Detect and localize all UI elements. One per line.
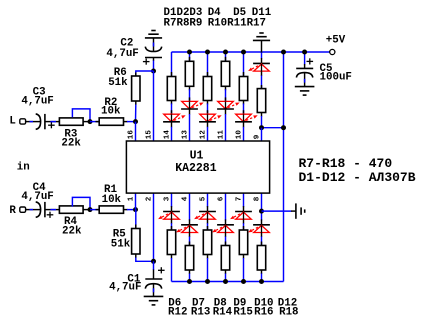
- junction on +5V bus: [241, 50, 246, 55]
- label R: [9, 205, 16, 217]
- label R13: [191, 306, 210, 318]
- svg-text:D1-D12 - АЛ307В: D1-D12 - АЛ307В: [299, 170, 416, 185]
- resistor R13: [185, 246, 193, 271]
- label R2: [104, 97, 117, 109]
- label R5: [113, 229, 126, 241]
- wire R13 to bottom bus: [189, 270, 191, 282]
- label 4,7uF (C4): [21, 191, 53, 203]
- label 4,7uF (C3): [21, 96, 53, 108]
- svg-text:R13: R13: [191, 306, 210, 318]
- wire node to pin 1: [135, 193, 137, 210]
- pin 10 label: [235, 130, 243, 140]
- label D7: [192, 297, 205, 309]
- svg-text:4,7uF: 4,7uF: [21, 96, 53, 108]
- label R14: [213, 306, 233, 318]
- resistor R10: [221, 61, 229, 86]
- junction D11/R17 node: [259, 125, 264, 130]
- wire D8 to R14: [207, 219, 209, 230]
- wire R6 to pin 16 node: [135, 101, 137, 122]
- svg-text:4: 4: [181, 196, 189, 201]
- pin 1 label: [127, 196, 135, 201]
- label R15: [233, 306, 252, 318]
- junction pin 8 / ground node: [259, 209, 264, 214]
- capacitor C1: [145, 267, 164, 296]
- wire bus to R9: [207, 52, 209, 77]
- wire ground to C2: [153, 38, 155, 51]
- svg-text:R18: R18: [279, 306, 298, 318]
- label D12: [278, 297, 297, 309]
- resistor R1: [99, 206, 123, 213]
- label U1: [190, 150, 204, 163]
- resistor R11: [239, 77, 247, 101]
- resistor R17: [257, 89, 265, 113]
- label KA2281: [175, 162, 217, 175]
- LED D8: [194, 212, 216, 220]
- LED D2: [181, 101, 204, 109]
- wire D10 to R16: [243, 219, 245, 230]
- label C4: [33, 182, 46, 194]
- wire bus to C5: [304, 52, 306, 68]
- pin 13 label: [181, 130, 189, 140]
- svg-text:6: 6: [217, 196, 225, 201]
- svg-text:3: 3: [163, 196, 171, 201]
- resistor R14: [203, 230, 211, 255]
- wire C5 blue lead: [304, 79, 306, 83]
- wire C3 to R3: [45, 121, 60, 123]
- capacitor C4: [36, 202, 54, 218]
- LED D10: [230, 212, 252, 220]
- junction on bottom bus: [259, 279, 264, 284]
- wire R4 to wiper node: [83, 209, 90, 211]
- label L: [9, 116, 15, 128]
- capacitor C3: [36, 114, 55, 129]
- label 4,7uF (C2): [106, 48, 138, 60]
- svg-text:22k: 22k: [61, 138, 81, 150]
- wire pin15 node to R6: [136, 71, 154, 76]
- svg-text:1: 1: [127, 196, 135, 201]
- wire right +5V feed (bus to bottom bus): [283, 52, 285, 282]
- pin 5 label: [199, 196, 207, 201]
- svg-text:R12: R12: [168, 306, 187, 318]
- label 22k (R4): [62, 226, 82, 238]
- op-amp U1 KA2281 (IC body): [126, 141, 269, 193]
- pin 12 label: [199, 130, 207, 140]
- label R4: [64, 216, 77, 228]
- wire R3 wiper: [72, 109, 90, 122]
- LED D4: [217, 101, 240, 109]
- svg-text:2: 2: [145, 196, 153, 201]
- wire R18 to bottom bus: [261, 270, 263, 282]
- capacitor C5: [296, 58, 313, 86]
- wire bus to R8: [189, 52, 191, 61]
- label R7-R18 value: [299, 156, 393, 171]
- resistor R2: [99, 118, 123, 125]
- label D6: [168, 297, 181, 309]
- wire pin 6 to D9: [225, 193, 227, 224]
- pin 14 label: [163, 130, 171, 140]
- capacitor C2: [143, 47, 162, 65]
- label in: [17, 162, 30, 174]
- wire R9 to D3: [207, 101, 209, 115]
- resistor R18: [257, 246, 265, 271]
- junction +5V feed at bus: [281, 50, 286, 55]
- wire D9 to R15: [225, 233, 227, 246]
- wire R2 to pin 16 node: [124, 121, 136, 123]
- wire bottom +5V bus: [172, 281, 284, 283]
- label D9: [233, 297, 246, 309]
- wire node to pin 16: [135, 122, 137, 141]
- terminal R input: [20, 207, 26, 212]
- wire D6 to R12: [171, 219, 173, 230]
- svg-text:R7R8R9: R7R8R9: [164, 18, 203, 30]
- wire R1 to pin 1 node: [124, 209, 136, 211]
- svg-text:100uF: 100uF: [320, 72, 352, 84]
- svg-text:R16: R16: [254, 306, 273, 318]
- wire R10 to D4: [225, 86, 227, 101]
- svg-text:10: 10: [235, 130, 243, 140]
- label D4: [208, 7, 221, 19]
- pin 9 label: [253, 134, 261, 139]
- label D10: [254, 297, 273, 309]
- wire pin 8 to D12: [261, 193, 263, 224]
- wire R11 to D5: [243, 101, 245, 115]
- terminal L input: [20, 119, 26, 124]
- svg-text:in: in: [17, 162, 30, 174]
- svg-text:10k: 10k: [101, 105, 121, 117]
- ground (above C2): [145, 31, 162, 38]
- wire node to C1: [153, 261, 155, 279]
- label R3: [64, 129, 77, 141]
- junction on bottom bus: [187, 279, 192, 284]
- svg-text:R10R11R17: R10R11R17: [208, 18, 266, 30]
- wire D12 to R18: [261, 233, 263, 246]
- svg-text:51k: 51k: [111, 239, 131, 251]
- label 51k (R5): [111, 239, 131, 251]
- wire pin 3 to D6: [171, 193, 173, 211]
- wire pin 8 node to ground: [262, 210, 296, 212]
- label R18: [279, 306, 298, 318]
- pin 4 label: [181, 196, 189, 201]
- ground (below C1): [144, 296, 164, 305]
- label 4,7uF (C1): [109, 282, 141, 294]
- wire R7 to D1: [171, 101, 173, 115]
- wire D5 to pin 10: [243, 122, 245, 141]
- wire bus to R11: [243, 52, 245, 77]
- junction on +5V bus: [205, 50, 210, 55]
- wire ground to D11 (crosses bus, no junction): [261, 40, 263, 62]
- wire D3 to pin 12: [207, 122, 209, 141]
- wire R input to C4: [25, 209, 40, 211]
- LED D3: [199, 114, 222, 122]
- resistor R15: [221, 246, 229, 271]
- label R12: [168, 306, 187, 318]
- ground (right of pin 8): [296, 203, 305, 218]
- +5V terminal: [330, 49, 335, 54]
- LED D5: [235, 114, 258, 122]
- wire R17 to node (pin 9): [261, 113, 263, 128]
- label C2: [120, 38, 133, 50]
- labels R10 R11 R17: [208, 18, 266, 30]
- junction on +5V bus: [223, 50, 228, 55]
- wire D7 to R13: [189, 233, 191, 246]
- wire node to R2: [90, 121, 99, 123]
- wire pin 4 to D7: [189, 193, 191, 224]
- junction pin 15 node: [151, 69, 156, 74]
- resistor R9: [203, 77, 211, 101]
- wire R16 to bottom bus: [243, 255, 245, 282]
- wire pin 5 to D8: [207, 193, 209, 211]
- wire node to R1: [90, 209, 99, 211]
- label D1-D12 type: [299, 170, 416, 185]
- wire bus to R7: [171, 52, 173, 77]
- svg-text:R: R: [9, 205, 16, 217]
- resistor R16: [239, 230, 247, 255]
- LED D1: [163, 114, 186, 122]
- label R16: [254, 306, 273, 318]
- LED D11: [248, 63, 270, 71]
- svg-text:14: 14: [163, 130, 171, 140]
- wire node to pin 9: [261, 128, 263, 141]
- svg-text:8: 8: [253, 196, 261, 201]
- wire node to +5V feed: [262, 127, 284, 129]
- pin 7 label: [235, 196, 243, 201]
- resistor R4 (trimmer): [59, 206, 83, 213]
- LED D12: [248, 225, 270, 233]
- junction on +5V bus: [187, 50, 192, 55]
- svg-text:13: 13: [181, 130, 189, 140]
- label 22k (R3): [61, 138, 81, 150]
- pin 15 label: [145, 130, 153, 140]
- svg-text:15: 15: [145, 130, 153, 140]
- resistor R7: [167, 77, 175, 101]
- junction on bottom bus: [205, 279, 210, 284]
- wire L input to C3: [25, 121, 40, 123]
- labels R7 R8 R9: [164, 18, 203, 30]
- svg-text:11: 11: [217, 130, 225, 140]
- svg-text:KA2281: KA2281: [175, 162, 217, 175]
- svg-text:R15: R15: [233, 306, 252, 318]
- wire node to pin 15: [153, 71, 155, 141]
- wire pin 2: [153, 193, 155, 261]
- wire bus to R10: [225, 52, 227, 61]
- resistor R12: [167, 230, 175, 255]
- label 10k (R2): [101, 105, 121, 117]
- svg-text:22k: 22k: [62, 226, 82, 238]
- junction on bottom bus: [241, 279, 246, 284]
- wire top +5V bus: [172, 51, 330, 53]
- svg-text:7: 7: [235, 196, 243, 201]
- LED D9: [212, 225, 234, 233]
- svg-text:9: 9: [253, 134, 261, 139]
- svg-text:R7-R18 - 470: R7-R18 - 470: [299, 156, 393, 171]
- pin 2 label: [145, 196, 153, 201]
- wire R4 wiper: [72, 197, 90, 209]
- ground (above D11): [253, 33, 270, 40]
- label C3: [33, 87, 46, 99]
- junction on +5V feed: [281, 125, 286, 130]
- label R6: [114, 67, 127, 79]
- wire R5 to pin 2 node: [136, 254, 154, 261]
- junction R3 wiper node: [88, 119, 93, 124]
- resistor R6: [132, 76, 140, 101]
- label D8: [214, 297, 227, 309]
- label C1: [127, 273, 140, 285]
- label +5V: [326, 35, 346, 47]
- label 51k (R6): [108, 77, 128, 89]
- svg-text:U1: U1: [190, 150, 204, 163]
- wire C2 to pin 15 node: [153, 58, 155, 72]
- LED D7: [176, 225, 198, 233]
- svg-text:12: 12: [199, 130, 207, 140]
- wire C1 blue lead: [153, 288, 155, 292]
- svg-text:51k: 51k: [108, 77, 128, 89]
- label C5: [320, 63, 333, 75]
- svg-text:16: 16: [127, 130, 135, 140]
- svg-text:4,7uF: 4,7uF: [109, 282, 141, 294]
- junction on bottom bus: [223, 279, 228, 284]
- junction pin 2 node: [151, 259, 156, 264]
- pin 16 label: [127, 130, 135, 140]
- label 100uF: [320, 72, 352, 84]
- svg-text:R14: R14: [213, 306, 233, 318]
- pin 11 label: [217, 130, 225, 140]
- resistor R8: [185, 61, 193, 86]
- wire C2 blue tick: [153, 43, 155, 47]
- junction pin 16 node: [133, 119, 138, 124]
- label D5: [233, 7, 246, 19]
- wire D1 to pin 14: [171, 122, 173, 141]
- label D11: [252, 7, 272, 19]
- svg-text:5: 5: [199, 196, 207, 201]
- wire pin 7 to D10: [243, 193, 245, 211]
- wire D11 to R17: [261, 71, 263, 89]
- resistor R3 (trimmer): [59, 118, 83, 125]
- resistor R5: [132, 229, 140, 255]
- svg-text:L: L: [9, 116, 15, 128]
- svg-text:+5V: +5V: [326, 35, 346, 47]
- svg-text:10k: 10k: [102, 194, 122, 206]
- svg-text:4,7uF: 4,7uF: [106, 48, 138, 60]
- wire R3 to wiper node: [83, 121, 90, 123]
- wire R12 to bottom bus: [171, 255, 173, 282]
- junction pin 1 node: [133, 207, 138, 212]
- wire D2 to pin 13: [189, 109, 191, 141]
- label 10k (R1): [102, 194, 122, 206]
- labels D1 D2 D3: [164, 7, 203, 19]
- junction R4 wiper node: [88, 207, 93, 212]
- label R1: [104, 184, 117, 196]
- pin 8 label: [253, 196, 261, 201]
- LED D6: [158, 212, 180, 220]
- junction C5 at bus: [302, 50, 307, 55]
- pin 3 label: [163, 196, 171, 201]
- svg-text:4,7uF: 4,7uF: [21, 191, 53, 203]
- wire R15 to bottom bus: [225, 270, 227, 282]
- wire R14 to bottom bus: [207, 255, 209, 282]
- wire pin 1 node to R5: [135, 210, 137, 229]
- pin 6 label: [217, 196, 225, 201]
- wire C4 to R4: [45, 209, 60, 211]
- wire D4 to pin 11: [225, 109, 227, 141]
- ground (below C5): [295, 87, 315, 96]
- wire R8 to D2: [189, 86, 191, 101]
